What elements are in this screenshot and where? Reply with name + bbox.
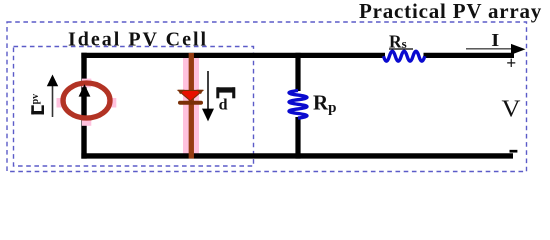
svg-text:pv: pv [30,94,41,105]
inner dashed box (Ideal PV Cell boundary) [14,47,254,167]
diode triangle dark corner right [196,90,203,94]
pink selection band behind diode branch [183,53,199,159]
I output arrow (top right) [466,44,526,55]
resistor Rs zigzag (horizontal, blue) [384,51,425,61]
wire: left vertical [81,53,86,159]
Ipv arrow (up, left of source) [47,75,58,118]
svg-text:V: V [502,97,522,123]
label Ipv (rotated, reads upward) [31,105,44,114]
svg-text:I: I [491,30,499,50]
label Id (rotated, reads downward) [216,87,235,98]
diode symbol: triangle down [178,90,203,101]
underline under Rs [389,48,413,50]
minus terminal [510,150,518,153]
wire: top horizontal (left section to Rs) [81,53,385,58]
wire: bottom horizontal [81,153,513,158]
resistor Rp zigzag (vertical, blue) [289,91,307,119]
diode stem (dark red-brown vertical) [189,53,194,159]
wire: top horizontal (Rs to + terminal) [424,53,515,58]
pink selection handles of current source [82,79,92,88]
svg-text:d: d [219,97,228,114]
wire: Rp branch vertical bottom [295,117,300,159]
diode triangle dark corner left [178,90,185,94]
Id arrow (down) [202,71,214,121]
svg-text:Ideal PV Cell: Ideal PV Cell [68,29,208,51]
svg-text:+: + [506,53,516,73]
outer dashed box (Practical PV array boundary) [7,22,527,172]
current source Ipv: ellipse [63,83,110,118]
wire: Rp branch vertical top [295,53,300,91]
diode cathode bar [178,101,203,105]
current source arrow (up) inside ellipse [79,84,91,115]
svg-text:Practical PV array: Practical PV array [359,0,542,23]
